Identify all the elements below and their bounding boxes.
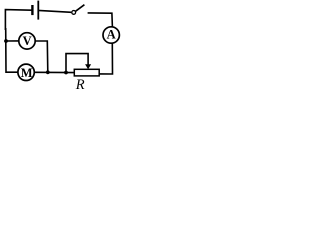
rheostat slider arrow head [85,64,91,69]
wire battery to switch [38,10,71,12]
switch S pivot [72,11,76,15]
svg-text:M: M [21,66,33,80]
battery cell long plate (positive) [37,1,39,20]
svg-text:A: A [107,27,116,41]
rheostat R body [74,69,99,76]
wire voltmeter right lead down to bottom junction [35,41,48,72]
svg-text:R: R [75,77,85,93]
wire ammeter down to bottom-right corner and to rheostat right terminal [100,43,113,74]
wire voltmeter left lead [6,40,19,42]
node junction dot slider branch [64,71,68,75]
node junction dot left wire / voltmeter [4,39,8,43]
ammeter A circle [103,27,119,43]
wire slider loop [66,54,88,73]
wire left vertical [6,28,18,72]
wire motor to rheostat [34,71,74,73]
battery cell short plate (negative) [31,5,33,15]
wire top-left segment [5,10,31,30]
node junction dot voltmeter branch [46,70,50,74]
motor M circle [18,64,34,80]
svg-text:V: V [23,34,32,48]
wire switch to top-right corner [88,13,113,27]
switch S lever [76,5,85,12]
voltmeter V circle [19,33,35,49]
